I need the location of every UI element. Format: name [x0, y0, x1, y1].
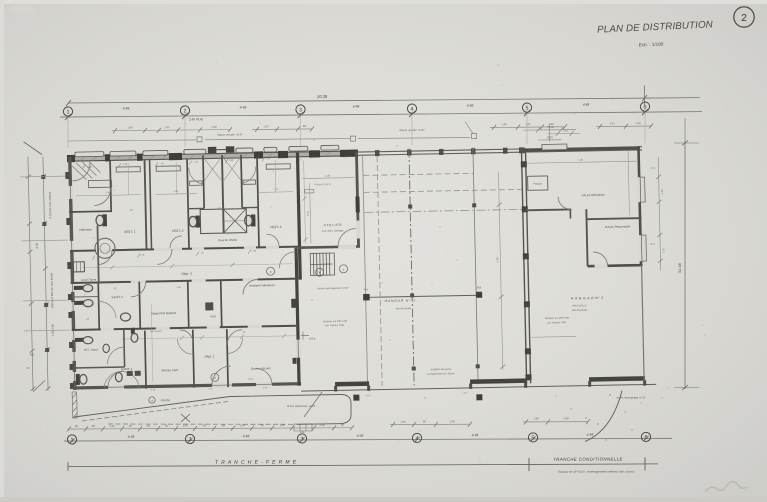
- bench vest1: [116, 167, 140, 172]
- micro texts bottom right chain: [400, 416, 569, 423]
- leader line to ref box 3: [465, 122, 473, 134]
- svg-text:Tampons sur 100 et 95: Tampons sur 100 et 95: [322, 320, 347, 323]
- ticks on side dim: [656, 175, 663, 263]
- axis line through bottom bubbles: [64, 438, 672, 441]
- left exterior wall: [70, 157, 75, 390]
- local tisane right wall: [97, 250, 100, 282]
- sanit1 large door swing: [104, 371, 139, 389]
- corner level tick bottom-left: [33, 381, 45, 392]
- top wall hatch strokes: [80, 152, 331, 161]
- salle interior dim line: [527, 161, 636, 163]
- svg-text:6: 6: [644, 105, 647, 111]
- vestiaire door swings into corridor: [98, 234, 280, 265]
- left inner vertical dim line: [43, 156, 48, 390]
- overall dimension line 10.28: [68, 98, 700, 103]
- detail bubble a: [266, 267, 274, 275]
- vertical wall x=189 (bureau club/degt1): [193, 330, 194, 388]
- side dim line right of block: [658, 157, 661, 271]
- grid bubble 4 (top): [407, 104, 416, 113]
- svg-text:1.48: 1.48: [239, 423, 245, 427]
- anchor square right: [476, 292, 482, 298]
- bottom wall door gap + swing: [595, 264, 608, 269]
- bureau responsable top wall: [587, 218, 642, 219]
- sanit1 wc pan top: [131, 328, 138, 343]
- moniteurs coat fixture: [291, 299, 296, 308]
- tisane sink unit: [73, 262, 84, 272]
- micro dim figures (texture): [83, 157, 354, 393]
- vertical wall x=223 (degt1/bureau accueil): [227, 329, 228, 387]
- sanit2 sink oval: [120, 313, 130, 321]
- svg-text:VEST. 2: VEST. 2: [172, 229, 184, 233]
- wall 330 door gaps: [101, 325, 262, 331]
- infirmerie corner hatch (shower): [72, 160, 100, 180]
- placard box: [528, 176, 548, 190]
- anchor blocks below bottom line: [353, 395, 359, 401]
- roof edge dashed line x=377: [377, 156, 382, 386]
- svg-text:105 g: 105 g: [309, 337, 316, 340]
- grid bubble 1 (bottom): [67, 435, 76, 444]
- svg-text:Bureau Club: Bureau Club: [162, 368, 179, 372]
- svg-text:VEST. 3: VEST. 3: [270, 225, 282, 229]
- micro texts bottom chain: [74, 423, 344, 435]
- title: PLAN DE DISTRIBUTION: [597, 19, 714, 35]
- atelier small marker: [305, 189, 314, 193]
- svg-text:Dégt. 1: Dégt. 1: [205, 354, 215, 358]
- svg-text:haut venant: haut venant: [150, 330, 162, 333]
- svg-text:accès piétonnier +0.15: accès piétonnier +0.15: [287, 404, 316, 408]
- secondary dim chain (upper): [112, 124, 653, 134]
- svg-text:VEST. 1: VEST. 1: [124, 230, 136, 234]
- tiny dims in vestiaires: [105, 188, 279, 212]
- svg-text:4: 4: [411, 107, 414, 113]
- svg-text:2.51: 2.51: [306, 210, 310, 216]
- svg-text:Dégt. 3: Dégt. 3: [181, 272, 192, 276]
- roof dash line A: [363, 173, 473, 175]
- bottom wall threshold lines: [108, 384, 272, 387]
- svg-text:1.48: 1.48: [533, 416, 539, 420]
- svg-text:7.28: 7.28: [578, 158, 584, 162]
- svg-text:1.98: 1.98: [635, 121, 641, 125]
- top tick of right dim: [674, 142, 699, 144]
- atelier bottom door gap + swing: [338, 245, 356, 250]
- svg-text:4.48: 4.48: [240, 105, 247, 109]
- bubble numbers (top row): [67, 105, 647, 116]
- salle top wall (thick): [524, 148, 640, 150]
- bottom wall segment B: [470, 378, 526, 384]
- svg-text:Douche HAND.: Douche HAND.: [218, 238, 237, 242]
- detail bubble b: [316, 268, 324, 276]
- vertical dim extension to top: [684, 118, 686, 141]
- svg-text:2: 2: [184, 108, 187, 114]
- vertical wall x=185 (rangt/kine): [188, 281, 189, 328]
- svg-text:1.35: 1.35: [525, 122, 531, 126]
- left outer vertical dim line: [28, 157, 33, 391]
- svg-text:1.98: 1.98: [127, 125, 133, 129]
- svg-text:1.50 2.88: 1.50 2.88: [51, 324, 55, 337]
- svg-text:1.48: 1.48: [400, 420, 406, 424]
- wc hand pan: [75, 337, 93, 345]
- svg-text:accès remorquage +0.15: accès remorquage +0.15: [617, 396, 646, 400]
- stair arrow: [310, 263, 332, 265]
- svg-text:plâtre et tête de mur tei: plâtre et tête de mur teinté: [49, 272, 54, 307]
- infirmerie round basin: [95, 238, 115, 258]
- svg-text:5.48: 5.48: [495, 257, 499, 263]
- grid bubble 2 (top): [180, 106, 189, 115]
- svg-text:Placard: Placard: [533, 182, 542, 185]
- scan speckles: [311, 260, 662, 441]
- partition vest2/lobby: [187, 159, 189, 249]
- salle interior wall horizontal (salle bottom): [525, 208, 571, 211]
- infirmerie door swing B: [94, 188, 111, 205]
- corner smudge top-left: [8, 5, 36, 15]
- vertical wall x=141 (wc hand/bureau club zone): [145, 331, 146, 389]
- svg-text:3.20 pm mur refend: 3.20 pm mur refend: [48, 192, 53, 219]
- bottom posts: [334, 380, 646, 391]
- partition lobby/vest3: [257, 157, 259, 247]
- svg-text:3: 3: [299, 108, 302, 114]
- svg-text:A T E L I E R: A T E L I E R: [323, 223, 343, 227]
- sheet number circle 2: [734, 7, 754, 27]
- office/hangar boundary wall (lower): [296, 248, 299, 386]
- svg-text:B.B: B.B: [477, 285, 482, 289]
- svg-text:8.20: 8.20: [35, 242, 39, 248]
- sanit1 wc pan (left wall): [76, 374, 87, 385]
- svg-text:4 17: 4 17: [463, 391, 468, 394]
- partition vest1 duct wall B: [150, 159, 152, 249]
- svg-text:4.48: 4.48: [243, 434, 250, 438]
- svg-text:par Travaux TISA: par Travaux TISA: [546, 321, 566, 324]
- svg-text:4.48: 4.48: [583, 103, 590, 107]
- bottom wall segment C: [589, 376, 645, 382]
- lobby bench R: [243, 180, 256, 184]
- vent stacks above douche: [208, 147, 217, 154]
- black square markers on left chain: [41, 175, 49, 352]
- wc hand door big swing: [107, 347, 124, 364]
- column axis x=473 (solid thin): [473, 147, 478, 384]
- svg-text:1.98: 1.98: [211, 125, 217, 129]
- svg-text:Jouldière des ponts: Jouldière des ponts: [430, 368, 452, 371]
- paper top edge light strip: [0, 0, 767, 4]
- left dim ticks (outer line): [26, 175, 36, 391]
- block bottom wall: [588, 265, 643, 266]
- kine room fixture: [205, 302, 213, 310]
- svg-text:4.48: 4.48: [467, 104, 474, 108]
- lobby bench L: [190, 181, 203, 185]
- svg-text:4.48: 4.48: [353, 105, 360, 109]
- partition douche R/lobby: [241, 155, 242, 208]
- salle right wall window 1: [637, 177, 645, 202]
- top wall column posts: [375, 147, 525, 156]
- corridor bottom wall door gaps: [131, 278, 258, 284]
- douche unit cross wall: [188, 207, 204, 209]
- svg-text:SANIT. 2: SANIT. 2: [111, 295, 123, 299]
- atelier right wall: [356, 152, 358, 247]
- grid bubble 4 (bottom): [412, 433, 421, 442]
- window extension ticks from wall: [20, 176, 69, 331]
- bubble numbers (bottom row): [71, 435, 648, 444]
- small tick group below atelier: [301, 331, 309, 339]
- svg-text:4.68: 4.68: [357, 434, 364, 438]
- lobby door arc R: [242, 166, 256, 183]
- central douche wall: [222, 155, 224, 233]
- reference box 1: [197, 137, 202, 142]
- sanit2 door arc: [99, 301, 116, 318]
- bottom tick of right dim: [674, 387, 699, 389]
- paper bottom edge darker strip: [0, 497, 767, 502]
- svg-text:2: 2: [741, 12, 747, 24]
- svg-text:+0.48: +0.48: [546, 125, 554, 129]
- detail bubble c: [339, 265, 347, 273]
- svg-text:1.35: 1.35: [164, 125, 170, 129]
- salle wall end stub: [569, 209, 571, 218]
- vertical wall x=95.5 (wc cubicles/sanit2): [98, 282, 99, 329]
- moniteur room door swing: [243, 279, 258, 294]
- reference box 3: [472, 134, 477, 139]
- svg-text:4.48: 4.48: [128, 435, 135, 439]
- svg-text:10.28: 10.28: [317, 94, 328, 99]
- shower stall diagonals (douche top): [204, 158, 240, 181]
- diagonal ticks at bubbles (top axis line): [65, 109, 648, 120]
- corridor top wall door gaps: [96, 246, 279, 253]
- hangar 2 large door swing arc: [585, 391, 622, 442]
- tranche tick (middle, between fermé/conditionnelle): [528, 458, 530, 471]
- svg-text:4.48: 4.48: [325, 174, 331, 178]
- partition vest1 duct wall A: [145, 160, 147, 250]
- wc hand bottom wall: [73, 366, 125, 369]
- top exterior wall (office): hatched band: [68, 151, 358, 162]
- left wall pilaster bumps: [65, 172, 74, 389]
- bench vest3: [266, 164, 290, 169]
- svg-text:Local Tisane: Local Tisane: [81, 278, 97, 282]
- grid bubble 2 (bottom): [185, 434, 194, 443]
- svg-text:dito Niv partiel: dito Niv partiel: [572, 309, 588, 312]
- salle right wall: [638, 146, 641, 265]
- douche HAND shower (X square): [200, 209, 247, 234]
- posts on boundary wall: [521, 161, 532, 380]
- bench vest2: [156, 166, 180, 171]
- svg-text:Kiné.: Kiné.: [210, 314, 217, 318]
- svg-text:à emplacement en Toiture: à emplacement en Toiture: [427, 372, 455, 376]
- svg-text:Infirmerie: Infirmerie: [79, 228, 92, 232]
- degt1 door arcs: [178, 339, 194, 355]
- interior dim line vestiaires: [76, 192, 293, 196]
- atelier right wall window blob: [355, 196, 359, 212]
- grid axis extension stubs: [68, 113, 645, 148]
- vestiaire interior dim verticals: [128, 160, 276, 195]
- svg-text:SANIT. 1: SANIT. 1: [121, 367, 133, 371]
- accueil radiator: [292, 358, 296, 364]
- atelier bottom wall: [298, 246, 360, 247]
- svg-text:Vestiaires Moniteurs: Vestiaires Moniteurs: [249, 283, 276, 288]
- svg-text:1.35: 1.35: [609, 121, 615, 125]
- roof dash-dot line C: [364, 209, 522, 212]
- grid bubble 6 (top): [640, 102, 649, 111]
- wc pan vestiaire 1: [96, 214, 107, 226]
- svg-text:Bureau Accueil: Bureau Accueil: [251, 366, 271, 370]
- svg-text:dito Niv partiel: dito Niv partiel: [396, 307, 412, 310]
- svg-text:1.98: 1.98: [105, 191, 110, 194]
- sanit1 wc pan: [115, 372, 122, 381]
- grid bubble 1 (top): [63, 102, 649, 116]
- svg-text:.98: .98: [422, 419, 426, 423]
- top wall window boxes (projecting): [75, 145, 339, 157]
- anchor square left (A.A): [363, 294, 370, 301]
- bureau club door swing: [180, 330, 193, 343]
- svg-text:3.48 78.45: 3.48 78.45: [189, 117, 204, 121]
- micro dim texts on secondary chain: [127, 121, 641, 129]
- corridor bottom wall: [71, 279, 299, 283]
- svg-text:terrain aménagement +0.97: terrain aménagement +0.97: [318, 287, 349, 291]
- svg-text:1.98: 1.98: [449, 419, 455, 423]
- wc cubicle divider: [73, 295, 98, 297]
- small detail box above bubble 3: [294, 424, 312, 431]
- hangar1 back door swing: [304, 392, 322, 417]
- wc pan douche R: [244, 214, 255, 226]
- vertical wall x=218 (kine/vest moniteurs): [221, 280, 222, 327]
- corridor center dim line: [82, 264, 292, 268]
- partition lobby/douche L: [203, 155, 204, 208]
- svg-text:.98: .98: [74, 424, 78, 428]
- porch sloped edge (dashed): [82, 402, 228, 422]
- corridor right door swing (to atelier stair lobby): [279, 252, 295, 268]
- grid bubble 3 (bottom): [297, 434, 306, 443]
- tick right of 10.28 line: [642, 95, 647, 101]
- underline of tampons note: [532, 335, 576, 338]
- wc cubicle pan lower: [74, 299, 93, 307]
- svg-text:T R A N C H E - F E R M E: T R A N C H E - F E R M E: [215, 459, 297, 465]
- ticks on hangar1 dim: [497, 203, 506, 369]
- svg-text:1.98: 1.98: [501, 122, 507, 126]
- svg-text:W.C. Hand.: W.C. Hand.: [84, 347, 99, 351]
- svg-text:1.61: 1.61: [299, 430, 305, 434]
- columns on axis 473: [472, 203, 480, 368]
- bay dimension texts (top): [123, 103, 590, 122]
- grid bubble 3 (top): [296, 105, 305, 114]
- diagonal ticks at bottom bubbles: [70, 436, 649, 444]
- small dim 8.63 assembly: [523, 124, 576, 142]
- tertiary dim line with reference boxes: [68, 122, 477, 144]
- wc pan douche L: [189, 216, 200, 228]
- left wall window openings: [68, 186, 77, 381]
- svg-text:2.98: 2.98: [563, 416, 569, 420]
- footpath dashed return: [108, 423, 297, 425]
- svg-text:27.3: 27.3: [650, 167, 656, 170]
- degt1 detail bubble: [211, 373, 219, 381]
- bureau responsable left wall: [586, 209, 587, 266]
- svg-text:avec détec. partagée: avec détec. partagée: [322, 229, 344, 232]
- svg-text:52.38: 52.38: [678, 263, 682, 273]
- svg-text:20.3: 20.3: [650, 243, 656, 246]
- svg-text:1.48: 1.48: [279, 423, 285, 427]
- svg-text:1.90: 1.90: [273, 188, 278, 191]
- tranche separation line: [68, 464, 658, 467]
- MAIN DRAWING GROUP placeholder: [20, 127, 669, 419]
- svg-text:1.35: 1.35: [661, 189, 664, 195]
- svg-text:HANGAR N° 1: HANGAR N° 1: [385, 298, 416, 303]
- grid bubble 5 (top): [522, 103, 531, 112]
- svg-text:4.48: 4.48: [472, 433, 479, 437]
- porch left pillar: [72, 392, 77, 418]
- grid bubble 5 (bottom): [528, 433, 537, 442]
- svg-text:Bureau Responsable: Bureau Responsable: [605, 224, 631, 228]
- reference box 2: [351, 136, 356, 141]
- svg-text:1.48: 1.48: [109, 424, 115, 428]
- inner dim vertical (salle right): [628, 151, 629, 215]
- left wall window glazing lines: [70, 186, 74, 381]
- leader arrow top left: [24, 141, 42, 154]
- svg-text:datum enrobé +0.37: datum enrobé +0.37: [217, 133, 243, 137]
- infirmerie bench/shelf: [88, 180, 111, 187]
- salle top window projection: [542, 144, 567, 150]
- salle right wall window 2: [638, 235, 646, 261]
- wc cubicle pan upper: [74, 284, 93, 292]
- tranche tick (left end): [67, 462, 69, 471]
- svg-text:1: 1: [67, 109, 70, 115]
- svg-text:1.35: 1.35: [662, 248, 665, 254]
- lower rooms horizontal wall y=330: [72, 326, 298, 330]
- atelier left dim line: [304, 161, 306, 244]
- porch sloped edge (solid): [74, 397, 230, 418]
- svg-text:Ech. : 1/100: Ech. : 1/100: [639, 42, 664, 48]
- right overall vertical dim line: [684, 141, 686, 389]
- bureau accueil door swing: [227, 330, 242, 345]
- mid dim chain y=340: [121, 302, 297, 383]
- vertical end mark of 10.28 line: [644, 85, 646, 105]
- tranche tick (right end): [644, 457, 646, 470]
- svg-text:4.48: 4.48: [123, 106, 130, 110]
- rotated left dim texts: [23, 192, 56, 370]
- svg-text:±0.15: ±0.15: [248, 379, 254, 381]
- svg-text:.88: .88: [91, 424, 95, 428]
- infirmerie door swing A: [72, 163, 90, 181]
- svg-text:A.A: A.A: [364, 287, 369, 291]
- columns on axis 409: [408, 204, 416, 370]
- svg-text:8.63: 8.63: [547, 135, 553, 139]
- atelier left wall (thick): [297, 153, 300, 280]
- svg-text:Porche: Porche: [161, 398, 171, 402]
- ticks on secondary chain: [113, 124, 653, 134]
- axis line through grid bubbles: [60, 112, 702, 117]
- corridor top wall: [70, 247, 298, 251]
- left chain ticks (inner line): [41, 174, 51, 390]
- svg-text:95: 95: [30, 353, 34, 357]
- grid bubble 6 (bottom): [641, 432, 650, 441]
- bottom exterior wall (office): [73, 384, 301, 388]
- bottom chain (right portion): [390, 419, 590, 427]
- svg-text:Tampons sur 100 et 95: Tampons sur 100 et 95: [544, 317, 569, 320]
- bay dimension texts (bottom): [128, 433, 594, 439]
- wc hand pan center: [103, 344, 110, 353]
- svg-text:3.63: 3.63: [563, 128, 569, 132]
- wall x=120 wc hand right: [123, 329, 126, 367]
- porch detail bubble: [149, 397, 155, 403]
- hangar2 right edge lower (thin): [642, 265, 645, 381]
- svg-text:Travaux en OPTION : Aménagemen: Travaux en OPTION : Aménagement Intérieu…: [557, 469, 635, 473]
- svg-text:TRANCHE CONDITIONNELLE: TRANCHE CONDITIONNELLE: [553, 457, 623, 462]
- survey cross on porch: [181, 414, 190, 422]
- roof dash line B: [364, 189, 522, 192]
- paper left edge light strip: [0, 0, 4, 502]
- hangar1/hangar2 boundary wall (double): [521, 148, 530, 383]
- signature bottom right: [705, 482, 747, 493]
- svg-text:5: 5: [526, 106, 529, 112]
- side dim texts: [648, 167, 665, 254]
- svg-text:PALE-DALLE: PALE-DALLE: [572, 304, 587, 307]
- infirmerie top separation wall: [69, 210, 111, 213]
- footpath top edge: [230, 394, 351, 424]
- hangar top wall (double thin): [358, 147, 642, 156]
- vertical wall x=136.5 (sanit2/rangt): [139, 282, 140, 329]
